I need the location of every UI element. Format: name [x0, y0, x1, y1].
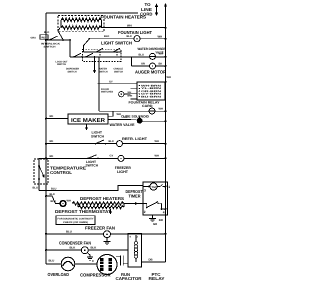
wire bus to defrost thermostat: [46, 196, 60, 204]
svg-text:GRA: GRA: [31, 36, 37, 39]
resistor fountain heater 2: [61, 26, 102, 30]
svg-text:DEFROST THERMOSTAT: DEFROST THERMOSTAT: [55, 209, 111, 214]
wire dispenser feed drop: [131, 57, 133, 66]
svg-text:WH: WH: [159, 107, 163, 110]
ground defrost timer: [152, 215, 154, 218]
node junction refr bus: [165, 143, 167, 145]
solenoid water dispenser valve: [150, 53, 156, 59]
svg-text:ICE MAKER: ICE MAKER: [71, 118, 105, 124]
svg-text:BK: BK: [159, 63, 163, 66]
wire freezer fan row: [46, 233, 104, 235]
wire fountain light row: [90, 38, 134, 40]
svg-text:COMPRESSOR: COMPRESSOR: [80, 273, 111, 278]
svg-text:FREEZER FAN: FREEZER FAN: [85, 225, 115, 230]
svg-text:FOR DIAGNOSTIC CONTINUITY: FOR DIAGNOSTIC CONTINUITY: [58, 218, 94, 221]
wire heater exit to interlock: [58, 28, 63, 40]
svg-text:FOUNTAIN HEATERS: FOUNTAIN HEATERS: [101, 15, 147, 20]
switch cradle blade 2: [113, 48, 120, 52]
node junction left bus interlock: [45, 39, 47, 41]
wire right bus bottom corner: [142, 261, 166, 263]
ice maker box: [68, 114, 108, 124]
ptc relay box: [128, 234, 142, 268]
svg-text:4: 4: [163, 210, 165, 214]
wire heater WH output: [102, 27, 166, 29]
motor auger: [150, 63, 156, 69]
wire overload row: [46, 263, 61, 265]
wire drop to lockout row: [69, 40, 71, 57]
svg-text:GR: GR: [153, 222, 157, 226]
svg-text:BLU: BLU: [51, 187, 56, 190]
svg-text:RD: RD: [50, 155, 54, 158]
svg-text:DB: DB: [149, 257, 153, 261]
wire card stub 3: [131, 98, 138, 100]
node junction card bus: [165, 81, 167, 83]
svg-text:GY-BRN: GY-BRN: [141, 93, 162, 96]
thermostat temperature control symbol: [38, 165, 40, 167]
node junction left bus condenser: [45, 249, 47, 251]
svg-text:LIGHT: LIGHT: [117, 170, 129, 174]
svg-text:CARD: CARD: [142, 104, 153, 108]
svg-text:BLU: BLU: [139, 53, 144, 56]
wire dashed linkage 2: [116, 52, 118, 57]
svg-text:WH: WH: [67, 199, 71, 202]
ground freezer fan: [106, 238, 108, 242]
motor freezer fan: [104, 231, 111, 238]
solenoid cube: [149, 108, 155, 114]
svg-text:SWITCH: SWITCH: [68, 71, 77, 74]
node junction left bus ice maker: [45, 118, 47, 120]
svg-text:OR-BRN: OR-BRN: [141, 90, 162, 93]
defrost timer box: [143, 182, 168, 215]
node junction cube bus: [165, 110, 167, 112]
wire line-cord double arrow: [156, 6, 158, 14]
wire freezer light row: [46, 157, 118, 159]
svg-text:WATER VALVE: WATER VALVE: [110, 123, 136, 127]
svg-text:YL-BRN: YL-BRN: [141, 87, 162, 90]
svg-text:CAPACITOR: CAPACITOR: [116, 276, 142, 281]
node interlock pivots: [48, 39, 50, 41]
switch interlock blade: [49, 36, 58, 40]
wire cube elbow to ice maker: [108, 111, 113, 116]
svg-text:TN: TN: [123, 116, 127, 119]
wire blu run to timer: [39, 186, 143, 191]
wire refr light row: [46, 143, 117, 145]
node junction left bus freezer fan: [45, 233, 47, 235]
wire heater left bar: [60, 20, 62, 28]
resistor defrost heater 2: [78, 206, 124, 209]
node junction freezer fan bus: [165, 233, 167, 235]
svg-text:2: 2: [144, 210, 146, 214]
svg-text:RELAY: RELAY: [149, 276, 165, 281]
ground condenser fan: [87, 253, 90, 257]
wire ice maker to water valve: [108, 118, 137, 121]
svg-text:RD: RD: [50, 115, 54, 118]
svg-text:REFR. LIGHT: REFR. LIGHT: [122, 137, 148, 141]
svg-text:TM: TM: [151, 186, 156, 189]
switch cradle blade 1: [96, 48, 103, 52]
fountain relay card box: [137, 82, 165, 100]
overload protector: [61, 257, 75, 271]
wire defrost heater arrow down: [110, 209, 112, 213]
svg-text:CONTROL: CONTROL: [50, 170, 72, 175]
svg-text:BLU: BLU: [66, 229, 72, 233]
svg-text:BLK: BLK: [70, 246, 76, 250]
wire heater to timer: [124, 203, 147, 205]
switch fountain light feed blade: [84, 39, 90, 46]
svg-text:GY: GY: [109, 81, 113, 84]
wire card stub 2: [124, 93, 137, 95]
svg-text:BLK: BLK: [109, 140, 114, 143]
motor TM defrost timer: [150, 183, 157, 190]
svg-text:SWITCH: SWITCH: [57, 63, 66, 66]
svg-text:BU-BRN: BU-BRN: [141, 95, 162, 98]
svg-text:BLU: BLU: [49, 259, 55, 263]
switch timer cam arm: [146, 207, 148, 209]
svg-text:1: 1: [168, 185, 170, 189]
wire left bus L1 vertical: [45, 13, 47, 264]
thermostat defrost: [60, 201, 66, 207]
svg-text:BLK: BLK: [91, 246, 97, 250]
wire compressor S to capacitor: [116, 256, 120, 258]
wire ice maker drop arrow: [86, 124, 88, 129]
svg-text:AUGER MOTOR: AUGER MOTOR: [135, 70, 167, 75]
node junction valve bus: [165, 56, 167, 58]
wire card stub 1: [131, 88, 138, 90]
wire water valve to bus: [143, 120, 166, 122]
node junction auger bus: [165, 65, 167, 67]
switch lock out blade: [74, 53, 81, 57]
lamp freezer light: [118, 155, 124, 161]
svg-text:BLK: BLK: [127, 35, 132, 38]
svg-text:RD: RD: [42, 37, 46, 40]
wire cradle switch row: [84, 51, 122, 53]
dispenser switch dashed enclosure: [83, 49, 122, 61]
solenoid water valve: [137, 118, 143, 124]
motor dispenser door: [119, 92, 124, 97]
wire top feeder L1: [46, 12, 138, 14]
node timer terminal 4: [161, 208, 163, 210]
wire control tap from bus: [39, 158, 46, 166]
svg-text:TIMER: TIMER: [129, 193, 141, 198]
wire heater elbow: [123, 204, 125, 208]
node junction left bus defrost: [45, 195, 47, 197]
temperature control dashed box: [34, 159, 48, 184]
node junction left bus freezer light: [45, 157, 47, 159]
wire capacitor to ptc: [123, 263, 128, 265]
svg-text:C: C: [92, 259, 94, 263]
svg-text:DEFROST HEATERS: DEFROST HEATERS: [80, 196, 124, 201]
svg-text:SWITCH: SWITCH: [86, 164, 99, 168]
wire valve row: [132, 56, 150, 58]
svg-text:BLK: BLK: [44, 31, 49, 34]
svg-text:BLK: BLK: [104, 35, 109, 38]
wire door switch feed: [98, 83, 138, 85]
wire dispenser drop to cube row: [98, 57, 100, 111]
svg-text:BR: BR: [159, 218, 163, 222]
motor compressor: [97, 255, 117, 275]
resistor fountain heater 1: [61, 18, 102, 22]
svg-text:LIGHT SWITCH: LIGHT SWITCH: [101, 41, 132, 46]
wire dashed linkage 1: [99, 52, 101, 57]
svg-text:WH: WH: [155, 154, 159, 157]
switch dispenser blade: [86, 53, 93, 57]
wire heater right bar: [101, 20, 103, 28]
svg-text:BLU: BLU: [33, 186, 38, 189]
lamp refrigerator light: [117, 141, 123, 147]
svg-text:SWITCH: SWITCH: [114, 71, 123, 74]
svg-text:3: 3: [144, 188, 146, 192]
thermistor ptc coil: [135, 235, 137, 241]
svg-text:BLU: BLU: [51, 200, 56, 203]
motor condenser fan: [81, 247, 88, 254]
svg-text:WH: WH: [167, 76, 171, 79]
svg-text:OR: OR: [141, 63, 145, 66]
node junction water valve bus: [165, 120, 167, 122]
svg-text:WH: WH: [158, 34, 163, 38]
node timer terminal 3: [148, 186, 150, 188]
svg-text:RD: RD: [50, 140, 54, 143]
svg-text:WH: WH: [159, 53, 163, 56]
svg-text:FOUNTAIN LIGHT: FOUNTAIN LIGHT: [118, 30, 152, 35]
svg-text:WH: WH: [155, 140, 159, 143]
wire arrow on heater-timer wire: [135, 202, 139, 205]
svg-text:BLK: BLK: [50, 193, 55, 196]
node junction right bus heater: [165, 27, 167, 29]
svg-text:SWITCH: SWITCH: [91, 134, 105, 138]
wire timer motor contact: [157, 186, 160, 188]
node timer contact heater: [158, 202, 161, 204]
capacitor run plates: [119, 255, 121, 265]
fountain relay card terminals text: [139, 85, 140, 86]
wire control output drop: [38, 179, 40, 191]
svg-text:SWITCHES: SWITCHES: [101, 90, 113, 93]
wire cube solenoid row: [99, 110, 149, 112]
svg-text:WH: WH: [127, 23, 132, 27]
wire interlock row: [46, 39, 70, 41]
node timer terminal 1: [165, 186, 167, 188]
wire blade drop: [83, 46, 85, 53]
node junction left bus refr light: [45, 143, 47, 145]
svg-text:SWITCH: SWITCH: [99, 71, 108, 74]
wire condenser fan row: [46, 249, 81, 251]
node junction freezer light bus: [165, 157, 167, 159]
wire auger row: [132, 65, 150, 67]
defrost note box: [56, 216, 95, 225]
wire lockout row: [70, 56, 132, 58]
lamp fountain light: [134, 36, 140, 42]
svg-text:SWITCH: SWITCH: [44, 46, 56, 49]
wire overload to compressor: [75, 263, 97, 265]
wire bus to ice maker box: [46, 118, 68, 120]
svg-text:GY: GY: [110, 155, 114, 158]
fountain heaters dashed enclosure: [58, 16, 104, 32]
svg-text:BRN: BRN: [128, 95, 133, 98]
resistor defrost heater 1: [72, 202, 124, 206]
switch freezer light blade: [88, 155, 97, 159]
svg-text:CHECK (OR OHMS): CHECK (OR OHMS): [63, 221, 88, 224]
svg-text:WH: WH: [117, 113, 121, 116]
node junction fountain light bus: [165, 38, 167, 40]
wire arrow down from lockout row: [94, 57, 96, 71]
wire right bus L2 with arrow to line cord: [165, 6, 167, 262]
svg-text:OVERLOAD: OVERLOAD: [48, 272, 70, 277]
compressor winding bars: [100, 258, 104, 271]
svg-text:WH-BRN: WH-BRN: [141, 84, 162, 87]
switch refr light blade: [96, 140, 105, 144]
label RD boxed: [40, 35, 48, 40]
